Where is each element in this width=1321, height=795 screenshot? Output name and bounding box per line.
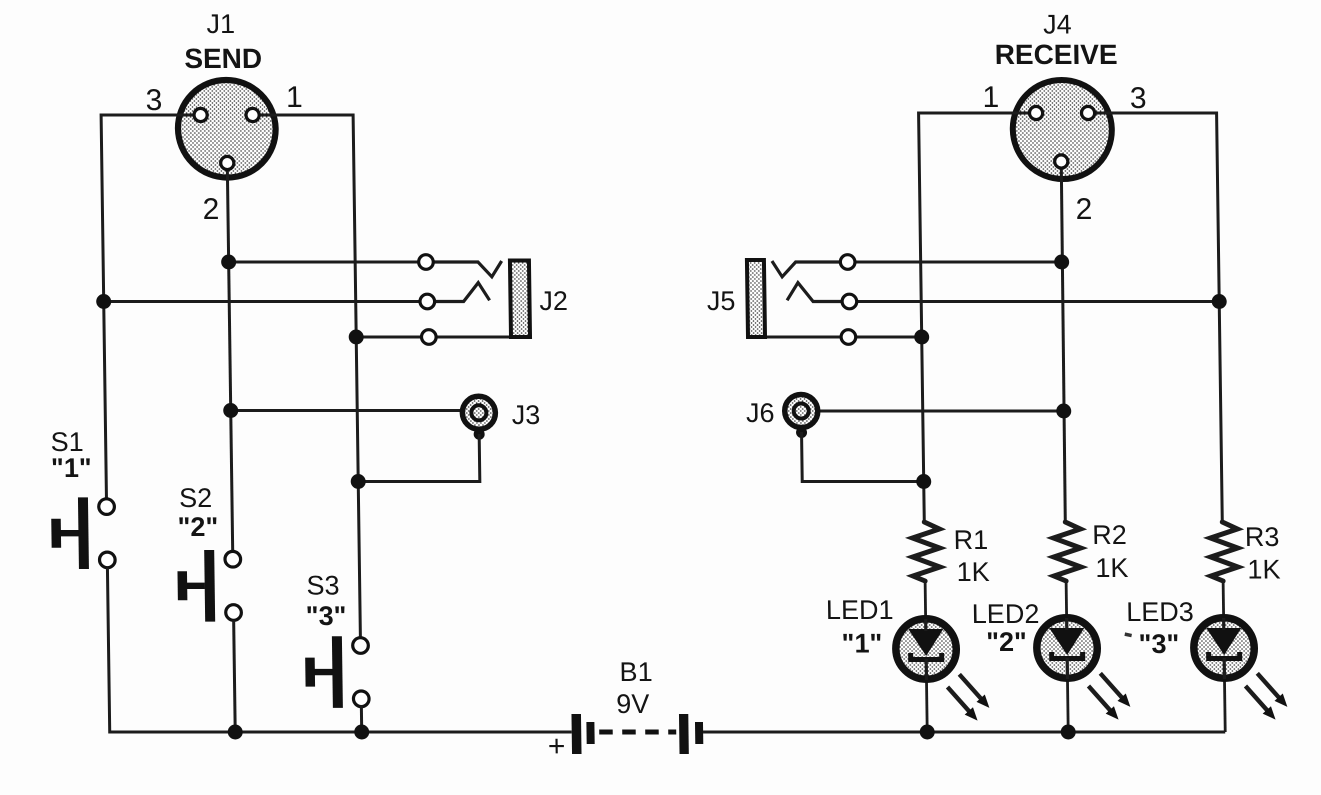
svg-text:"2": "2" [177, 512, 218, 542]
svg-text:LED2: LED2 [972, 599, 1040, 629]
svg-text:LED3: LED3 [1126, 597, 1194, 627]
svg-text:2: 2 [1075, 193, 1092, 226]
svg-text:J2: J2 [539, 286, 568, 316]
svg-text:B1: B1 [619, 657, 652, 687]
svg-text:J5: J5 [707, 286, 736, 316]
svg-text:1K: 1K [1247, 555, 1280, 585]
svg-text:S3: S3 [306, 571, 339, 601]
svg-text:+: + [548, 730, 566, 763]
svg-text:J3: J3 [512, 400, 541, 430]
svg-text:2: 2 [202, 193, 219, 226]
svg-text:R3: R3 [1245, 522, 1280, 552]
svg-text:LED1: LED1 [826, 595, 894, 625]
svg-text:J1: J1 [206, 9, 235, 39]
svg-text:R2: R2 [1092, 520, 1127, 550]
svg-text:"3": "3" [306, 601, 347, 631]
svg-text:1K: 1K [1095, 553, 1128, 583]
svg-text:3: 3 [1130, 82, 1147, 115]
svg-text:"2": "2" [986, 627, 1027, 657]
svg-text:J4: J4 [1043, 10, 1072, 40]
svg-text:RECEIVE: RECEIVE [994, 39, 1117, 70]
svg-text:SEND: SEND [184, 43, 262, 74]
svg-text:J6: J6 [746, 398, 775, 428]
svg-text:R1: R1 [953, 525, 988, 555]
svg-text:9V: 9V [616, 689, 649, 719]
svg-text:1: 1 [286, 81, 303, 114]
svg-text:1: 1 [982, 81, 999, 114]
svg-text:3: 3 [145, 84, 162, 117]
svg-text:"3": "3" [1138, 629, 1179, 659]
svg-text:1K: 1K [956, 557, 989, 587]
svg-text:"1": "1" [51, 453, 92, 483]
svg-text:S2: S2 [179, 483, 212, 513]
svg-text:"1": "1" [841, 629, 882, 659]
